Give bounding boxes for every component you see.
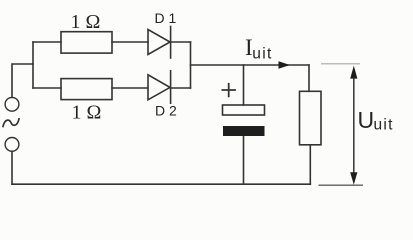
wire source top to branch point xyxy=(12,64,33,97)
resistor R1 box 1 ohm xyxy=(61,32,112,53)
svg-text:uit: uit xyxy=(374,117,394,134)
wire to resistor R2 xyxy=(33,87,61,89)
capacitor top lead xyxy=(243,65,245,105)
svg-text:1 Ω: 1 Ω xyxy=(71,11,101,33)
load resistor box xyxy=(300,91,322,145)
AC tilde symbol xyxy=(3,119,19,127)
AC source terminal top xyxy=(5,97,19,111)
wire corner down to load xyxy=(308,65,310,91)
diode D1 triangle xyxy=(148,30,170,55)
wire R1 to D1 xyxy=(112,41,148,43)
svg-text:D 2: D 2 xyxy=(155,103,177,119)
diode D2 cathode bar xyxy=(170,71,172,103)
wire D1 to join node xyxy=(171,41,191,43)
wire to resistor R1 xyxy=(33,41,61,43)
wire R2 to D2 xyxy=(112,87,148,89)
wire source bottom to rail xyxy=(11,151,13,184)
svg-text:1 Ω: 1 Ω xyxy=(72,102,102,124)
voltage arrow line U uit xyxy=(353,77,355,174)
diode D2 triangle xyxy=(148,75,170,100)
svg-text:uit: uit xyxy=(252,46,272,63)
current arrow head I uit xyxy=(279,61,291,68)
voltage arrow head down xyxy=(350,172,357,185)
wire load to bottom rail xyxy=(309,145,311,184)
capacitor C bottom lead xyxy=(243,136,245,184)
AC source terminal bottom xyxy=(5,138,19,152)
capacitor C bottom plate (filled) xyxy=(223,126,265,136)
output wire with current direction xyxy=(191,64,310,66)
diode D1 cathode bar xyxy=(170,27,172,59)
voltage arrow head up xyxy=(350,66,357,79)
svg-text:D 1: D 1 xyxy=(155,10,177,26)
wire D2 to join node xyxy=(171,87,191,89)
bottom rail xyxy=(12,183,310,185)
join node vertical xyxy=(190,42,192,88)
svg-text:U: U xyxy=(358,107,375,133)
measurement tick top xyxy=(321,63,360,65)
capacitor plus sign xyxy=(222,84,235,97)
resistor R2 box 1 ohm xyxy=(61,79,112,100)
wire branch vertical xyxy=(32,42,34,88)
measurement tick bottom xyxy=(319,184,364,186)
capacitor C top plate xyxy=(223,105,265,115)
